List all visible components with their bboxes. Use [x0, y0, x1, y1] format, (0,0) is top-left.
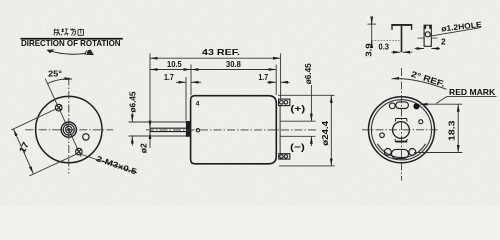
svg-text:4: 4	[196, 101, 200, 108]
svg-text:43 REF.: 43 REF.	[202, 47, 240, 57]
svg-text:RED MARK: RED MARK	[449, 87, 495, 97]
svg-text:ø24.4: ø24.4	[321, 120, 330, 145]
svg-text:30.8: 30.8	[226, 59, 241, 69]
svg-text:(−): (−)	[290, 142, 305, 152]
svg-text:25°: 25°	[48, 69, 62, 78]
svg-text:1.7: 1.7	[258, 72, 268, 82]
svg-text:2: 2	[441, 37, 446, 47]
svg-text:ø2: ø2	[139, 143, 149, 153]
svg-text:1.7: 1.7	[164, 72, 174, 82]
svg-text:10.5: 10.5	[167, 59, 182, 69]
svg-text:ø6.45: ø6.45	[303, 63, 313, 84]
svg-text:18.3: 18.3	[447, 120, 457, 141]
svg-text:DIRECTION OF ROTATION: DIRECTION OF ROTATION	[21, 39, 121, 48]
svg-text:0.3: 0.3	[379, 41, 390, 51]
svg-text:ø6.45: ø6.45	[128, 91, 138, 112]
svg-text:(+): (+)	[290, 103, 305, 113]
svg-text:3.9: 3.9	[363, 43, 373, 57]
